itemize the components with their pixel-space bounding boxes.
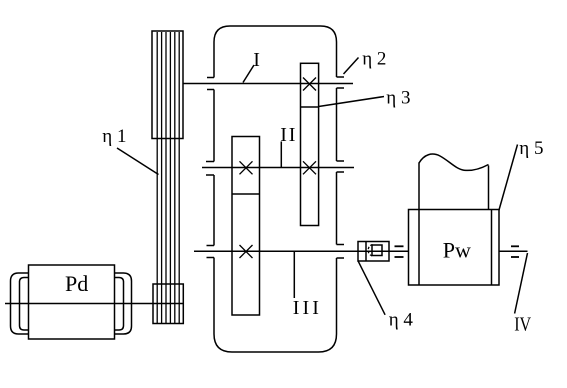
label eta3	[386, 87, 410, 108]
svg-text:η 4: η 4	[389, 309, 414, 330]
motor right outer end cap	[115, 273, 132, 334]
motor Pd body	[29, 265, 115, 339]
label I	[253, 49, 260, 71]
bearing shaft II right	[337, 161, 345, 172]
label III	[293, 297, 322, 319]
shaft IV	[499, 250, 528, 252]
leader eta5	[499, 145, 518, 211]
label IV	[514, 313, 531, 335]
gear cross shaft I	[303, 78, 316, 91]
shaft II	[202, 167, 354, 169]
machine Pw inner wall right	[491, 210, 493, 286]
label Pd	[65, 271, 88, 296]
gearbox housing left wall segment shaft I to II	[213, 90, 215, 162]
machine break dashes right pair	[511, 246, 519, 257]
bearing shaft I left	[207, 78, 214, 90]
gear cross shaft II left	[240, 161, 253, 174]
coupling eta4 outer box	[358, 242, 389, 262]
motor shaft centerline	[5, 303, 183, 305]
svg-text:η 2: η 2	[362, 49, 386, 70]
small pulley	[153, 284, 183, 324]
coupling break dashes left pair	[395, 246, 404, 257]
leader III	[293, 252, 295, 299]
gearbox housing bottom	[214, 258, 337, 353]
bearing shaft I right	[337, 77, 345, 88]
bearing shaft II left	[206, 162, 214, 176]
svg-text:Pd: Pd	[65, 271, 88, 296]
bearing shaft III right	[337, 245, 345, 259]
motor right inner end cap	[115, 278, 124, 331]
leader II	[280, 142, 282, 168]
gear cross shaft II right	[303, 161, 316, 174]
gear cross shaft III	[240, 245, 253, 258]
machine tower left side	[418, 163, 420, 210]
svg-text:η 5: η 5	[519, 138, 543, 159]
coupling eta4 inner element	[368, 245, 382, 256]
gear block right column	[301, 63, 319, 225]
leader eta4	[358, 261, 385, 315]
label eta5	[519, 138, 543, 159]
big pulley	[152, 31, 183, 139]
label eta2	[362, 49, 386, 70]
machine tower wavy break line	[419, 154, 489, 170]
bearing shaft III left	[207, 246, 215, 258]
gearbox housing top	[214, 26, 337, 78]
leader eta3	[319, 97, 384, 107]
leader eta2	[344, 58, 359, 75]
gearbox housing right wall segment shaft II to III	[336, 172, 338, 245]
label eta4	[389, 309, 414, 330]
label Pw	[443, 237, 471, 262]
machine Pw outer box	[409, 210, 500, 286]
svg-text:Pw: Pw	[443, 237, 471, 262]
leader eta1	[117, 148, 159, 175]
svg-text:η 1: η 1	[102, 126, 126, 147]
leader I	[243, 65, 254, 83]
machine tower right side	[488, 166, 490, 210]
svg-text:I: I	[253, 49, 260, 71]
svg-text:IV: IV	[514, 313, 531, 335]
shaft I	[183, 83, 353, 85]
gearbox housing right wall segment shaft I to II	[336, 88, 338, 161]
svg-text:III: III	[293, 297, 322, 319]
leader IV	[515, 253, 528, 314]
label II	[280, 124, 297, 146]
motor left outer end cap	[11, 273, 29, 334]
label eta1	[102, 126, 126, 147]
svg-text:η 3: η 3	[386, 87, 410, 108]
gearbox housing left wall segment shaft II to III	[213, 175, 215, 246]
belt strands	[157, 32, 179, 323]
motor left inner end cap	[20, 278, 29, 331]
shaft III	[194, 250, 409, 252]
gear block left column	[232, 137, 260, 316]
svg-text:II: II	[280, 124, 297, 146]
machine Pw inner wall left	[418, 210, 420, 286]
